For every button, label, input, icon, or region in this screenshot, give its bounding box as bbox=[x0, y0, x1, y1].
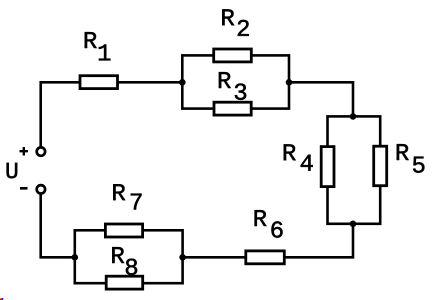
plus sign bbox=[20, 147, 29, 156]
bottom-left corner artifact bbox=[0, 299, 1, 300]
wire: node E left and up to source - terminal bbox=[41, 193, 75, 257]
label R1 bbox=[85, 32, 111, 60]
resistor R2 bbox=[214, 49, 252, 62]
node E junction dot bbox=[72, 254, 79, 261]
resistor R3 bbox=[214, 102, 251, 115]
minus sign bbox=[20, 187, 28, 190]
wire: R6 left to node F bbox=[183, 256, 246, 259]
label R5 bbox=[397, 144, 425, 173]
resistor R5 bbox=[374, 146, 387, 186]
label R3 bbox=[219, 72, 246, 100]
node D junction dot bbox=[350, 221, 357, 228]
resistor R8 bbox=[106, 276, 143, 289]
label R6 bbox=[255, 210, 283, 237]
wire: R7/R8 parallel loop bbox=[75, 230, 183, 283]
resistor R7 bbox=[105, 224, 142, 237]
wire: source + up to top-left corner and right to R1 bbox=[41, 82, 81, 147]
resistor R4 bbox=[321, 147, 334, 187]
node B junction dot bbox=[286, 79, 293, 86]
wire: node D down and left to R6 bbox=[284, 224, 353, 257]
label R7 bbox=[113, 184, 141, 209]
node F junction dot bbox=[179, 254, 186, 261]
wire: node B right and down to R4/R5 top rail bbox=[289, 82, 353, 116]
source + terminal circle bbox=[37, 147, 45, 155]
label R8 bbox=[112, 247, 137, 275]
resistor R6 bbox=[246, 251, 284, 264]
wire: R2/R3 parallel loop bbox=[182, 55, 289, 108]
node C junction dot bbox=[350, 113, 357, 120]
node A junction dot bbox=[179, 79, 186, 86]
label U bbox=[7, 163, 18, 178]
label R4 bbox=[284, 144, 313, 170]
source - terminal circle bbox=[37, 185, 45, 193]
resistor R1 bbox=[80, 76, 118, 89]
label R2 bbox=[222, 9, 249, 36]
wire: R1 right to node A bbox=[118, 81, 183, 84]
wire: R4/R5 parallel loop bbox=[328, 116, 381, 223]
